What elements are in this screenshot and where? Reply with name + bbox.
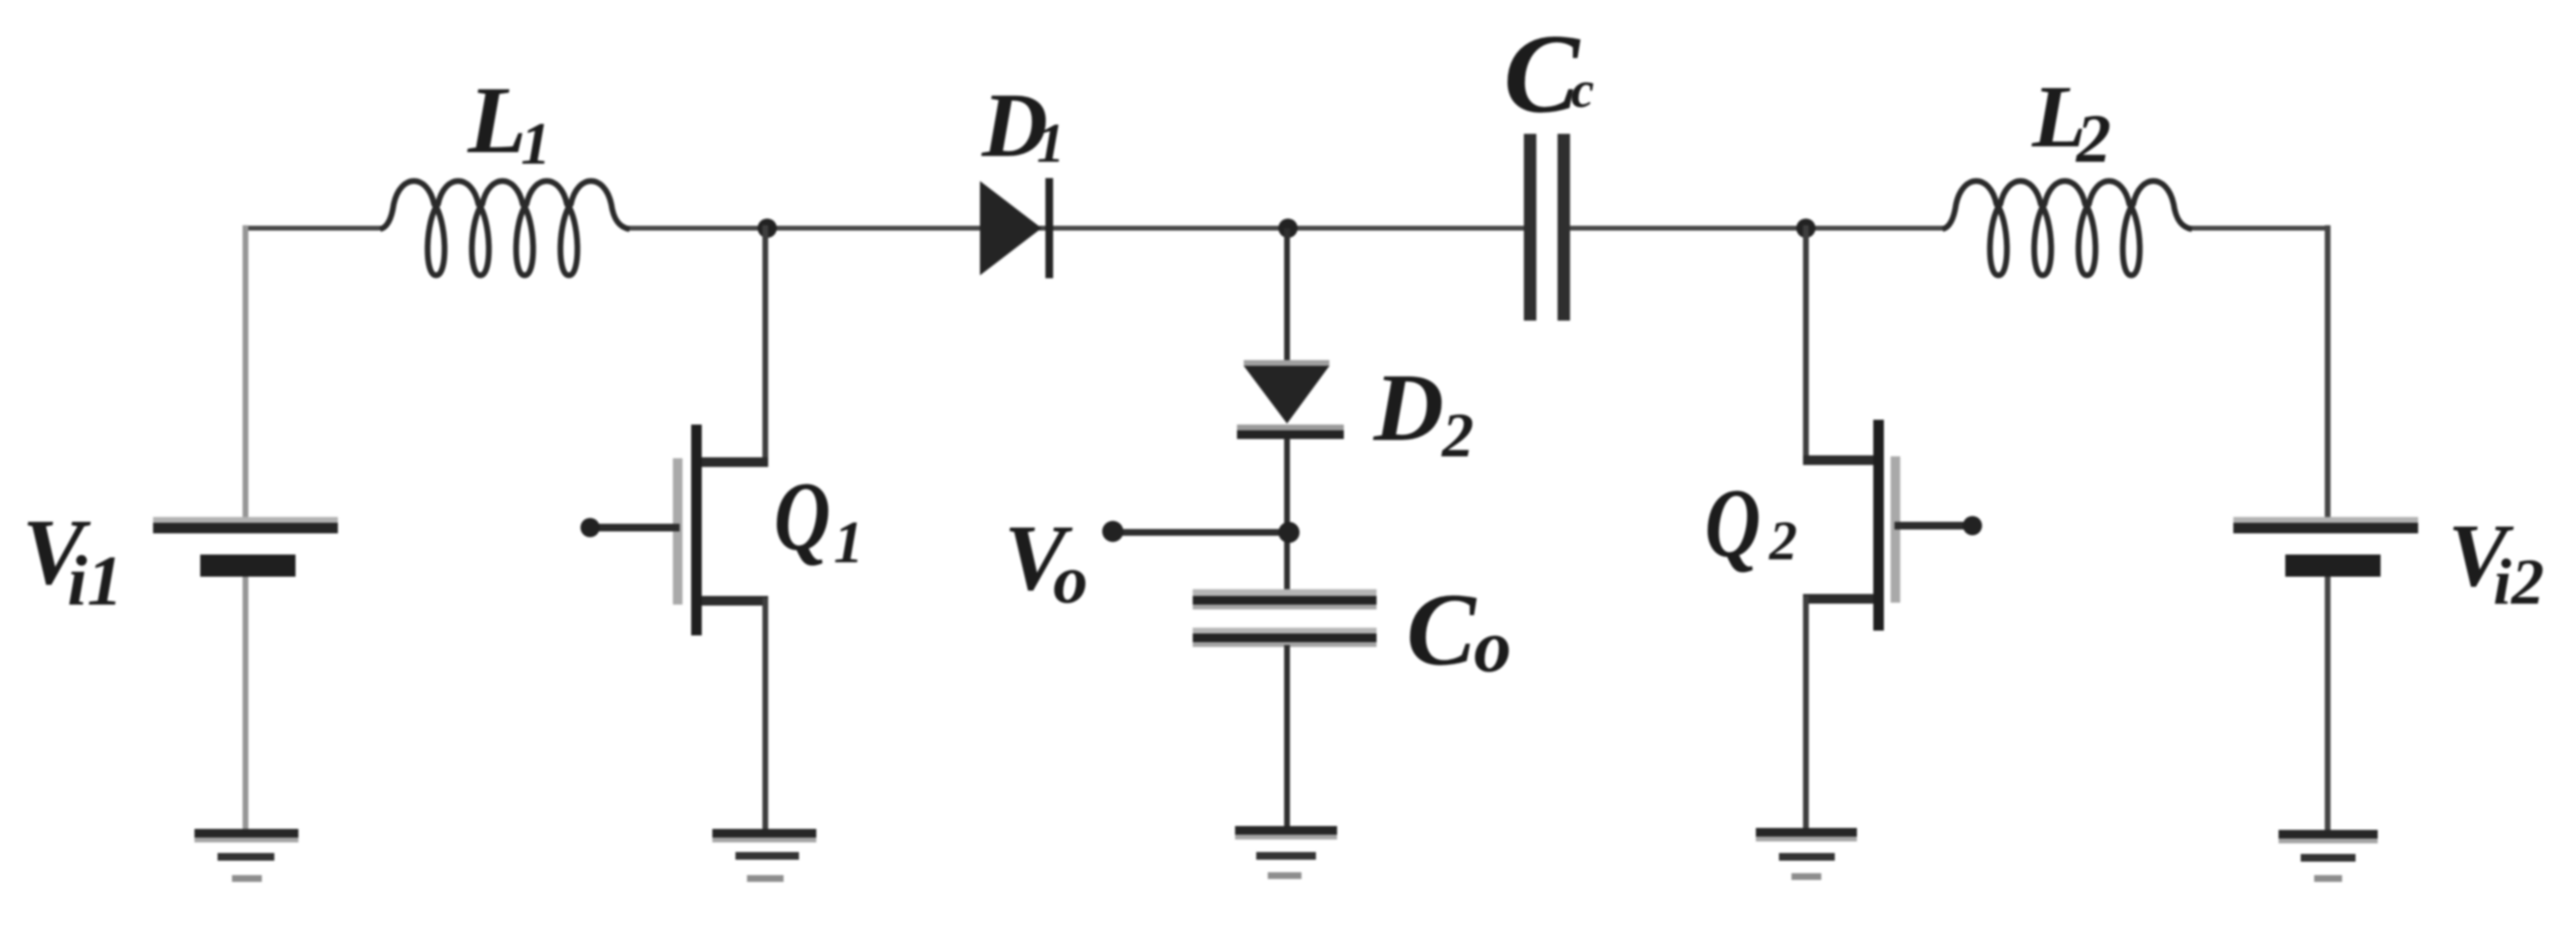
ground (Q1) (712, 829, 816, 882)
svg-text:Q: Q (774, 462, 831, 572)
svg-text:i1: i1 (67, 542, 123, 621)
wire left battery to ground (243, 575, 248, 834)
ground (Vi2) (2279, 830, 2378, 882)
wire Q2 gate (1894, 522, 1972, 530)
Q2 gate terminal dot (1963, 516, 1982, 535)
svg-text:D: D (1373, 353, 1444, 461)
diode D1 (980, 178, 1053, 278)
wire top rail left segment (243, 226, 382, 231)
node Vo terminal dot (1102, 521, 1123, 542)
capacitor Cc (1524, 134, 1570, 321)
wire right battery to ground (2325, 575, 2331, 836)
svg-text:C: C (1406, 573, 1478, 687)
svg-text:2: 2 (2075, 100, 2111, 177)
wire right battery branch vertical (2325, 225, 2331, 523)
wire Q2 source vertical (1803, 596, 1809, 831)
Q1 gate terminal dot (580, 518, 600, 537)
node Vo junction dot (1278, 522, 1300, 543)
capacitor Co (1193, 589, 1377, 647)
battery Vi1 (153, 517, 338, 577)
wire top rail right segment (2190, 226, 2331, 231)
wire top rail middle (L1 to Cc) (628, 226, 1524, 231)
svg-text:1: 1 (1037, 112, 1065, 174)
svg-text:L: L (467, 66, 527, 173)
svg-text:2: 2 (1768, 509, 1797, 572)
wire Q1 gate (590, 524, 680, 531)
wire D2 to Vo node to Co (1284, 439, 1290, 597)
svg-text:Q: Q (1705, 469, 1761, 579)
wire top rail (Cc to L2) (1570, 226, 1945, 231)
wire Q2 drain vertical (1803, 225, 1809, 460)
transistor Q1 (673, 425, 768, 635)
node C (Cc / Q2 drain junction) (1796, 219, 1816, 238)
transistor Q2 (1803, 420, 1900, 631)
svg-text:C: C (1504, 11, 1581, 137)
svg-text:1: 1 (521, 112, 551, 177)
wire Q1 source vertical (762, 598, 768, 832)
ground (Vi1) (194, 829, 298, 882)
battery Vi2 (2233, 517, 2418, 577)
wire D2 branch upper (1284, 228, 1290, 367)
inductor L1 (380, 181, 630, 275)
svg-text:c: c (1571, 61, 1594, 118)
node B (D1 cathode / D2 branch) (1278, 219, 1298, 238)
svg-text:o: o (1474, 604, 1511, 687)
svg-text:2: 2 (1441, 400, 1474, 471)
wire Co to ground (1284, 645, 1290, 830)
ground (Co) (1235, 826, 1337, 879)
wire Vo stub (1113, 530, 1288, 536)
ground (Q2) (1756, 828, 1857, 880)
svg-text:1: 1 (834, 510, 863, 576)
diode D2 (1237, 360, 1344, 439)
node A (L1 / Q1 drain junction) (758, 219, 777, 238)
inductor L2 (1943, 181, 2192, 275)
wire Q1 drain vertical (762, 225, 768, 462)
wire left battery branch vertical (243, 225, 248, 523)
svg-text:o: o (1053, 541, 1088, 618)
svg-text:i2: i2 (2493, 545, 2544, 618)
